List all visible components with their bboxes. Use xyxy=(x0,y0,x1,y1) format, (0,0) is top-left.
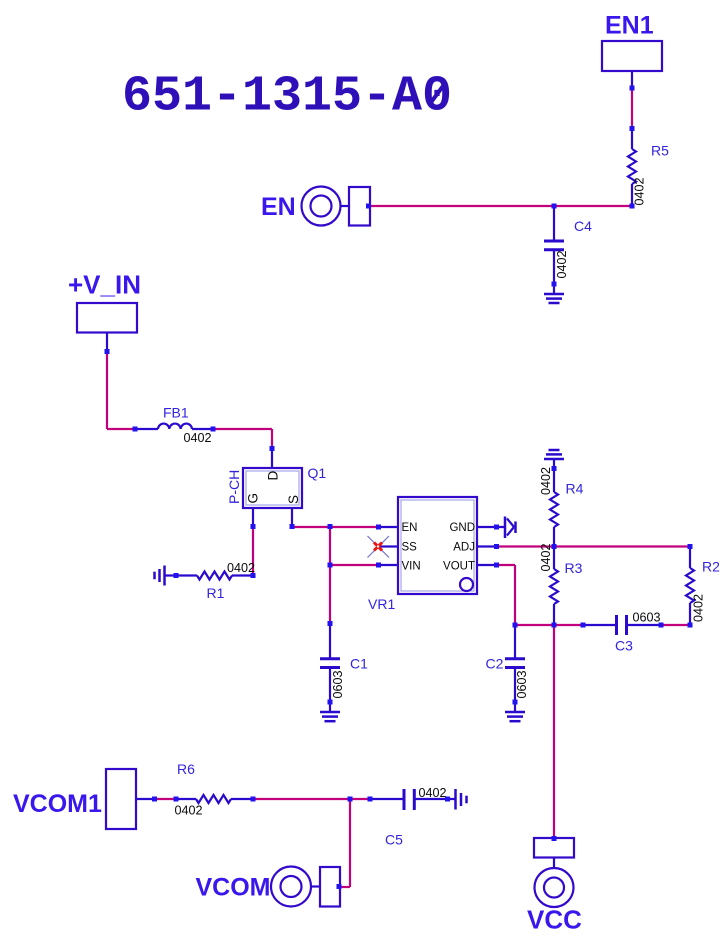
svg-text:0402: 0402 xyxy=(175,804,203,818)
svg-text:0603: 0603 xyxy=(515,670,529,698)
svg-text:0402: 0402 xyxy=(555,250,569,278)
svg-text:R2: R2 xyxy=(702,559,720,575)
svg-text:GND: GND xyxy=(449,522,475,534)
svg-text:VR1: VR1 xyxy=(368,596,395,612)
svg-text:C5: C5 xyxy=(385,832,403,848)
svg-text:C4: C4 xyxy=(574,218,592,234)
svg-text:C2: C2 xyxy=(486,656,504,672)
svg-text:0603: 0603 xyxy=(633,611,661,625)
svg-text:0402: 0402 xyxy=(633,177,647,205)
svg-text:EN: EN xyxy=(402,522,418,534)
svg-text:R1: R1 xyxy=(207,585,225,601)
svg-text:G: G xyxy=(246,493,261,504)
svg-text:C3: C3 xyxy=(615,638,633,654)
svg-text:+V_IN: +V_IN xyxy=(68,270,141,300)
svg-text:0603: 0603 xyxy=(331,670,345,698)
svg-text:EN1: EN1 xyxy=(605,12,654,40)
svg-text:VCOM: VCOM xyxy=(196,874,271,902)
svg-text:R4: R4 xyxy=(566,481,584,497)
svg-text:VCC: VCC xyxy=(527,905,582,935)
svg-text:P-CH: P-CH xyxy=(226,470,242,504)
svg-text:VOUT: VOUT xyxy=(443,561,475,573)
svg-text:0402: 0402 xyxy=(539,467,553,495)
svg-text:Q1: Q1 xyxy=(308,465,327,481)
svg-text:0402: 0402 xyxy=(227,561,255,575)
svg-text:VCOM1: VCOM1 xyxy=(13,790,102,818)
svg-text:0402: 0402 xyxy=(419,786,447,800)
svg-text:651-1315-A0: 651-1315-A0 xyxy=(122,69,452,126)
svg-text:C1: C1 xyxy=(350,656,368,672)
svg-text:R6: R6 xyxy=(177,761,195,777)
svg-text:S: S xyxy=(286,495,301,504)
svg-text:FB1: FB1 xyxy=(163,405,189,421)
svg-text:R5: R5 xyxy=(651,143,669,159)
svg-text:ADJ: ADJ xyxy=(453,542,475,554)
svg-text:0402: 0402 xyxy=(692,594,706,622)
svg-text:SS: SS xyxy=(402,542,418,554)
svg-text:D: D xyxy=(266,471,281,481)
svg-text:VIN: VIN xyxy=(402,561,421,573)
svg-text:0402: 0402 xyxy=(184,431,212,445)
svg-text:0402: 0402 xyxy=(539,543,553,571)
svg-text:R3: R3 xyxy=(565,560,583,576)
svg-text:EN: EN xyxy=(261,193,296,221)
